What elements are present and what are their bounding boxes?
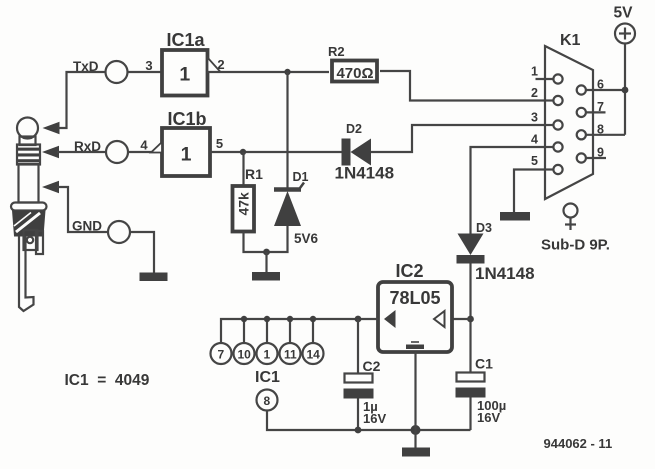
svg-text:47k: 47k [236,192,252,216]
node RxD [74,139,128,163]
svg-text:IC1 = 4049: IC1 = 4049 [65,372,150,389]
svg-text:8: 8 [264,394,271,408]
svg-text:R2: R2 [328,44,345,59]
wire TxD to jack [58,72,106,128]
junction on IC1b output [240,149,246,155]
svg-text:78L05: 78L05 [389,288,440,308]
svg-text:4: 4 [531,133,538,147]
svg-text:RxD: RxD [74,139,101,154]
regulator IC2 [378,261,452,352]
IC1 pin 10 [234,316,255,364]
IC1 pin 1 [257,316,278,364]
svg-text:16V: 16V [477,410,500,425]
svg-text:D3: D3 [476,221,492,235]
wire RxD to jack [57,151,106,153]
capacitor C1 [456,356,507,431]
svg-text:2: 2 [531,86,538,100]
wire GND to jack [57,187,108,232]
wire IC1a output to R2 [207,71,329,73]
svg-text:1: 1 [531,65,538,79]
svg-text:5V6: 5V6 [294,231,319,246]
ground R1/D1 [252,252,280,281]
svg-text:C2: C2 [363,358,381,374]
svg-text:C1: C1 [475,356,493,372]
junction D3/IC2 [467,316,474,323]
K1 pin 4 [531,133,563,152]
svg-text:Sub-D 9P.: Sub-D 9P. [541,237,610,254]
jack plug J1 [11,118,47,312]
IC1 pin 8 [255,369,280,411]
capacitor C2 [344,319,387,430]
wire TxD circle to IC1a pin 3 [127,71,162,73]
K1 pin 3 [531,111,563,130]
svg-text:944062 - 11: 944062 - 11 [544,436,613,451]
junction rail C2 [355,316,362,323]
K1 pin 2 [531,86,563,105]
svg-text:14: 14 [307,348,321,362]
K1 pin 1 [531,65,563,84]
text 944062 - 11 [544,436,613,451]
wire GND circle to ground [130,232,155,273]
connector K1 body [545,32,593,199]
wire IC2 output rail [221,319,378,343]
inverter IC1a [145,30,224,96]
wire IC2 input [452,318,471,320]
svg-text:K1: K1 [560,32,581,49]
wire IC1b output to D2 [210,151,342,153]
wire IC2 common to ground [414,352,416,448]
IC1 pin 11 [280,316,301,364]
wire 5V to K1 pin 6 and pin 8 [624,44,626,135]
svg-text:TxD: TxD [73,59,99,74]
ground main [402,448,430,457]
ground GND [140,273,168,282]
wire K1 pin 5 to ground [514,170,545,213]
arrow to jack sleeve [42,181,59,193]
svg-text:470Ω: 470Ω [336,65,373,82]
node GND [72,219,130,244]
junction rail C2 bottom [355,427,362,434]
svg-text:1: 1 [181,144,192,166]
svg-text:5: 5 [531,154,538,168]
svg-text:R1: R1 [245,166,263,182]
K1 pin 8 [577,123,625,140]
wire D2 to K1 pin 3 [371,125,545,152]
diode D2 [335,122,395,183]
svg-text:5: 5 [216,136,223,151]
node TxD [73,59,128,83]
text Sub-D 9P. [541,237,610,254]
IC1 pin 14 [303,316,324,364]
junction rail IC2 pin [411,425,421,435]
svg-text:10: 10 [238,348,252,362]
supply 5V [614,5,636,44]
resistor R2 [328,44,377,82]
svg-text:D2: D2 [346,122,362,136]
K1 pin 6 [577,78,625,95]
K1 pin 9 [577,146,606,163]
svg-text:1: 1 [179,64,190,86]
svg-text:GND: GND [72,219,102,234]
svg-text:4: 4 [140,138,148,153]
female connector symbol [564,204,578,231]
svg-text:5V: 5V [614,5,634,22]
junction on IC1a output [284,69,290,75]
wire R2 to K1 pin 2 [380,71,545,101]
wire RxD circle to IC1b pin 4 [128,151,163,153]
junction 5V / pin 6 [622,87,629,94]
ground K1 pin 5 [500,212,530,221]
svg-text:11: 11 [284,348,297,362]
arrow to jack tip [43,122,60,134]
wire K1 pin 4 to D3 [471,147,546,234]
svg-text:IC1: IC1 [255,369,280,386]
svg-text:7: 7 [218,348,225,362]
svg-text:IC1b: IC1b [168,109,207,129]
wire bottom ground rail [267,411,471,431]
svg-text:1: 1 [264,348,271,362]
IC1 pin 7 [211,343,232,364]
text IC1 = 4049 [65,372,150,389]
svg-text:D1: D1 [293,170,309,184]
svg-text:IC1a: IC1a [167,30,206,50]
diode D3 [457,221,535,283]
svg-text:IC2: IC2 [396,261,424,281]
junction R1/D1 ground [263,249,270,256]
K1 pin 5 [531,154,563,174]
svg-text:1N4148: 1N4148 [475,264,535,283]
resistor R1 [233,152,267,252]
svg-text:3: 3 [531,111,538,125]
svg-text:16V: 16V [363,411,386,426]
svg-text:1N4148: 1N4148 [335,164,395,183]
svg-text:3: 3 [145,58,152,73]
K1 pin 7 [577,100,606,117]
zener diode D1 [267,72,319,252]
inverter IC1b [140,109,223,176]
arrow to jack ring [42,146,59,158]
wire D3 to C1 [469,264,471,373]
